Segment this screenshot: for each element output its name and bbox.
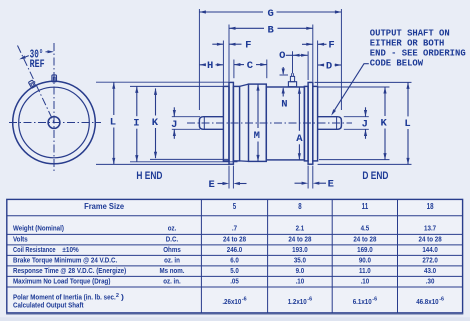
right hub plate: [304, 86, 308, 160]
svg-text:144.0: 144.0: [422, 245, 438, 254]
dimension I: [136, 86, 138, 116]
extension line flange top to left L dim: [96, 81, 229, 83]
svg-text:6.0: 6.0: [230, 255, 239, 264]
front view horizontal centerline: [9, 122, 101, 124]
side view horizontal centerline: [187, 122, 352, 124]
svg-text:J: J: [171, 119, 177, 131]
extension line O terminal center: [292, 51, 294, 73]
svg-text:Coil Resistance: Coil Resistance: [13, 245, 56, 254]
svg-text:24 to 28: 24 to 28: [223, 234, 246, 243]
svg-text:.10: .10: [296, 277, 305, 286]
svg-text:-6: -6: [439, 297, 445, 303]
svg-text:G: G: [267, 8, 273, 20]
svg-text:D END: D END: [362, 170, 388, 182]
front view inner circle: [19, 87, 90, 158]
svg-text:O: O: [279, 50, 285, 62]
extension line B right flange face: [312, 25, 314, 82]
svg-text:REF: REF: [30, 59, 45, 71]
table frame: [7, 199, 463, 313]
svg-text:9.0: 9.0: [296, 266, 305, 275]
dimension G: [199, 11, 263, 13]
dimension F right: [302, 43, 313, 45]
svg-text:18: 18: [427, 202, 434, 211]
terminal tab at top of front view: [52, 75, 57, 82]
extension line E left outer: [228, 166, 230, 189]
svg-text:Ohms: Ohms: [163, 245, 181, 254]
leader line to right shaft: [364, 63, 369, 65]
dimension E right: [295, 182, 304, 184]
svg-text:Weight (Nominal): Weight (Nominal): [13, 224, 64, 233]
svg-text:193.0: 193.0: [292, 245, 308, 254]
svg-text:4.5: 4.5: [361, 224, 370, 233]
svg-text:N: N: [281, 99, 287, 111]
svg-text:Brake Torque Minimum @ 24 V.D.: Brake Torque Minimum @ 24 V.D.C.: [13, 255, 117, 264]
front view outer circle: [13, 81, 96, 164]
dimension J right: [365, 107, 367, 116]
dimension L left: [113, 82, 115, 115]
dimension N: [282, 67, 284, 74]
svg-text:E: E: [208, 179, 214, 191]
svg-text:2: 2: [116, 293, 119, 299]
dimension K left: [155, 88, 157, 115]
dimension H: [199, 64, 205, 66]
svg-text:Frame Size: Frame Size: [84, 202, 125, 211]
svg-text:EITHER OR BOTH: EITHER OR BOTH: [370, 39, 445, 49]
front view 30-degree radial centerline: [18, 46, 55, 123]
svg-text:.30: .30: [426, 277, 435, 286]
dimension O: [286, 54, 293, 56]
svg-text:J: J: [362, 119, 368, 131]
extension line right shaft face: [317, 41, 319, 86]
svg-text:C: C: [247, 60, 254, 72]
svg-text:43.0: 43.0: [424, 266, 436, 275]
svg-text:OUTPUT SHAFT ON: OUTPUT SHAFT ON: [370, 29, 450, 39]
extension line E right outer: [307, 166, 309, 189]
30-degree leader arrow to radial line: [22, 56, 29, 59]
svg-text:K: K: [381, 118, 388, 130]
svg-text:A: A: [296, 133, 303, 145]
right mounting flange: [308, 82, 313, 164]
left taper section: [240, 84, 249, 161]
svg-text:oz.: oz.: [168, 224, 177, 233]
svg-text:H END: H END: [136, 170, 162, 182]
svg-text:Ms nom.: Ms nom.: [159, 266, 184, 275]
svg-text:K: K: [152, 117, 159, 129]
extension line E right inner: [312, 166, 314, 189]
svg-text:5.0: 5.0: [230, 266, 239, 275]
extension line left shaft face: [222, 41, 224, 86]
extension line J right top: [344, 116, 369, 118]
extension line plate top to left I dim: [130, 85, 223, 87]
svg-text:F: F: [245, 40, 251, 52]
extension tick C right: [266, 60, 268, 79]
dimension M: [257, 84, 259, 128]
svg-text:-6: -6: [372, 297, 378, 303]
left inner plate: [233, 86, 239, 160]
table row dividers: [7, 215, 463, 217]
svg-text:F: F: [328, 40, 334, 52]
svg-text:oz. in.: oz. in.: [163, 277, 181, 286]
30-degree leader arrow to vertical centerline: [46, 51, 50, 53]
svg-text:1.2x10: 1.2x10: [288, 297, 307, 306]
svg-text:35.0: 35.0: [294, 255, 306, 264]
dimension C: [234, 64, 244, 66]
dimension J left: [173, 107, 175, 116]
svg-text:M: M: [254, 130, 260, 142]
extension line body bottom to left K dim: [150, 158, 229, 160]
front view shaft hub circle: [48, 117, 60, 129]
dimension D: [318, 64, 324, 66]
svg-text:169.0: 169.0: [357, 245, 373, 254]
bottom page shadow: [0, 317, 470, 321]
svg-text:8: 8: [298, 202, 302, 211]
extension line G left at shaft end: [198, 9, 200, 110]
svg-text:.05: .05: [230, 277, 239, 286]
right inner plate: [313, 86, 318, 160]
svg-text:±10%: ±10%: [62, 245, 79, 254]
right shaft end-cap line: [336, 117, 338, 130]
svg-text:246.0: 246.0: [227, 245, 243, 254]
dimension L right: [407, 82, 409, 116]
svg-text:D.C.: D.C.: [166, 234, 178, 243]
svg-text:I: I: [133, 118, 139, 130]
svg-text:24 to 28: 24 to 28: [353, 234, 376, 243]
svg-text:Response Time @ 28 V.D.C. (Ene: Response Time @ 28 V.D.C. (Energize): [13, 266, 127, 275]
svg-text:46.8x10: 46.8x10: [416, 297, 438, 306]
svg-text:oz. in: oz. in: [164, 255, 180, 264]
svg-text:CODE BELOW: CODE BELOW: [370, 59, 424, 69]
svg-text:D: D: [326, 60, 332, 72]
svg-text:11: 11: [362, 202, 369, 211]
svg-text:-6: -6: [307, 297, 313, 303]
extension line flange bottom to left L dim: [96, 163, 229, 165]
svg-text:11.0: 11.0: [359, 266, 371, 275]
extension line plate bottom to left I dim: [130, 161, 238, 163]
extension line body top to right K dim: [318, 86, 389, 88]
main body cylinder: [266, 87, 304, 160]
svg-text:24 to 28: 24 to 28: [288, 234, 311, 243]
extension line J left bottom: [172, 128, 200, 130]
svg-text:272.0: 272.0: [422, 255, 438, 264]
svg-text:L: L: [404, 118, 410, 130]
extension line G right at shaft end: [340, 9, 342, 110]
svg-text:B: B: [267, 24, 274, 36]
left hub plate: [223, 86, 229, 160]
svg-text:Calculated Output Shaft: Calculated Output Shaft: [13, 301, 84, 310]
dimension A: [298, 87, 300, 131]
extension line J right bottom: [344, 128, 369, 130]
extension line E left inner: [232, 166, 234, 189]
svg-text:H: H: [207, 60, 213, 72]
extension line body bottom to right K dim: [319, 159, 390, 161]
terminal on body top: [288, 73, 296, 87]
svg-text:Volts: Volts: [13, 234, 28, 243]
svg-text:6.1x10: 6.1x10: [353, 297, 372, 306]
svg-text:13.7: 13.7: [424, 224, 436, 233]
extension tick C left: [233, 60, 235, 79]
extension line B left flange face: [228, 25, 230, 82]
left output shaft: [199, 117, 223, 130]
left shaft end-cap line: [203, 117, 205, 130]
right output shaft: [318, 117, 342, 130]
left mounting flange: [229, 82, 233, 164]
front view vertical centerline: [53, 43, 55, 171]
dimension B: [229, 27, 264, 29]
extension line J left top: [172, 116, 200, 118]
svg-text:2.1: 2.1: [296, 224, 305, 233]
svg-text:24 to 28: 24 to 28: [419, 234, 442, 243]
svg-text:.7: .7: [232, 224, 237, 233]
dimension F left: [212, 43, 223, 45]
svg-text:90.0: 90.0: [359, 255, 371, 264]
extension line flange bottom to right L dim: [318, 163, 412, 165]
table column dividers: [200, 199, 202, 313]
svg-text:Maximum No Load Torque (Drag): Maximum No Load Torque (Drag): [13, 277, 111, 286]
svg-text:.10: .10: [361, 277, 370, 286]
svg-text:END - SEE ORDERING: END - SEE ORDERING: [370, 49, 466, 59]
svg-text:-6: -6: [242, 297, 248, 303]
dimension K right: [384, 87, 386, 116]
extension line flange top to right L dim: [315, 81, 412, 83]
svg-text:L: L: [110, 116, 116, 128]
extension line O flange face: [307, 51, 309, 80]
rotor cap section: [249, 84, 267, 161]
svg-text:E: E: [328, 179, 334, 191]
svg-text:5: 5: [233, 202, 237, 211]
svg-text:.26x10: .26x10: [222, 297, 241, 306]
terminal tab at 30 degrees: [28, 80, 35, 88]
